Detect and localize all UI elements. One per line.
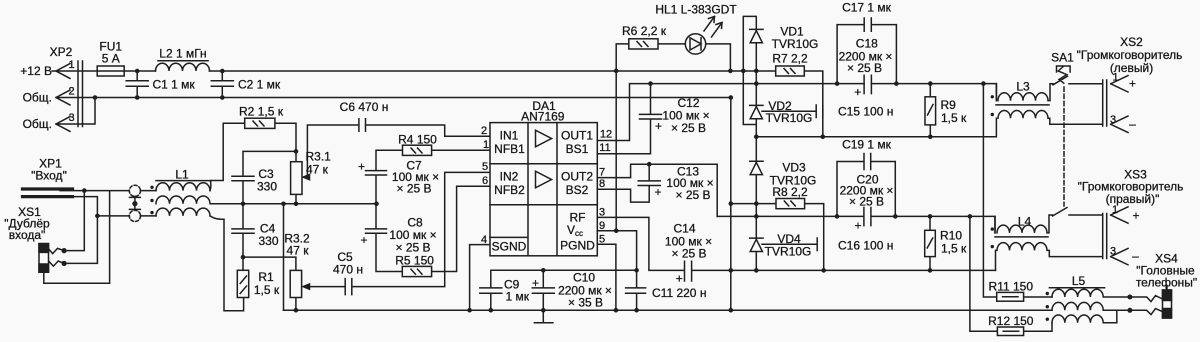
svg-text:1,5 к: 1,5 к <box>254 283 280 297</box>
svg-text:BS1: BS1 <box>566 142 589 156</box>
svg-text:1: 1 <box>68 59 74 71</box>
svg-text:× 25 В: × 25 В <box>675 188 710 202</box>
svg-text:1: 1 <box>483 139 489 151</box>
svg-text:IN1: IN1 <box>500 129 519 143</box>
svg-text:C17 1 мк: C17 1 мк <box>842 1 892 15</box>
svg-text:× 25 В: × 25 В <box>396 182 431 196</box>
svg-text:L5: L5 <box>1072 274 1086 288</box>
svg-text:R10: R10 <box>940 228 962 242</box>
svg-text:PGND: PGND <box>560 239 595 253</box>
svg-text:телефоны": телефоны" <box>1136 276 1197 290</box>
svg-text:+: + <box>1129 77 1136 91</box>
svg-text:TVR10G: TVR10G <box>766 111 813 125</box>
svg-text:7: 7 <box>599 166 605 178</box>
svg-text:4: 4 <box>481 234 487 246</box>
svg-text:C1 1 мк: C1 1 мк <box>153 78 196 92</box>
svg-text:× 25 В: × 25 В <box>849 194 884 208</box>
svg-text:C19 1 мк: C19 1 мк <box>842 137 892 151</box>
svg-text:+: + <box>1132 209 1139 223</box>
svg-text:–: – <box>1129 117 1136 131</box>
svg-text:5: 5 <box>599 233 605 245</box>
svg-text:2: 2 <box>481 125 487 137</box>
svg-text:6: 6 <box>482 175 488 187</box>
svg-text:+12 В: +12 В <box>20 64 52 78</box>
svg-text:1,5 к: 1,5 к <box>941 241 967 255</box>
svg-text:5 А: 5 А <box>102 52 120 66</box>
svg-text:1,5 к: 1,5 к <box>941 111 967 125</box>
svg-text:XP2: XP2 <box>50 45 73 59</box>
svg-text:C11 220 н: C11 220 н <box>652 286 706 300</box>
svg-text:R2 1,5 к: R2 1,5 к <box>239 105 284 119</box>
svg-text:IN2: IN2 <box>500 170 519 184</box>
svg-text:12: 12 <box>600 128 612 140</box>
svg-text:SGND: SGND <box>492 240 527 254</box>
svg-text:+: + <box>655 119 662 133</box>
svg-text:47 к: 47 к <box>306 163 329 177</box>
svg-text:+: + <box>854 219 861 233</box>
svg-text:R11 150: R11 150 <box>989 279 1034 293</box>
svg-text:+: + <box>532 276 539 290</box>
svg-text:C14: C14 <box>673 222 695 236</box>
svg-text:C16 100 н: C16 100 н <box>838 238 893 252</box>
svg-text:R1: R1 <box>258 270 274 284</box>
svg-text:330: 330 <box>257 180 277 194</box>
svg-text:8: 8 <box>599 178 605 190</box>
svg-text:L1: L1 <box>175 168 189 182</box>
svg-text:NFB1: NFB1 <box>494 142 525 156</box>
svg-text:L4: L4 <box>1018 215 1032 229</box>
svg-text:× 25 В: × 25 В <box>847 61 882 75</box>
svg-text:× 25 В: × 25 В <box>671 121 706 135</box>
svg-text:3: 3 <box>68 112 74 124</box>
svg-text:1: 1 <box>1112 72 1118 84</box>
svg-text:TVR10G: TVR10G <box>765 244 812 258</box>
svg-text:1: 1 <box>1112 204 1118 216</box>
svg-text:–: – <box>1132 249 1139 263</box>
svg-text:входа": входа" <box>9 228 46 242</box>
svg-text:47 к: 47 к <box>287 244 310 258</box>
svg-text:470 н: 470 н <box>333 263 363 277</box>
svg-text:Общ.: Общ. <box>23 117 52 131</box>
svg-text:3: 3 <box>1110 114 1116 126</box>
svg-text:3: 3 <box>1110 246 1116 258</box>
svg-text:Общ.: Общ. <box>23 91 52 105</box>
svg-text:C15 100 н: C15 100 н <box>838 104 893 118</box>
svg-text:XS2: XS2 <box>1120 35 1143 49</box>
svg-text:× 35 В: × 35 В <box>568 296 603 310</box>
svg-text:2: 2 <box>68 86 74 98</box>
svg-text:NFB2: NFB2 <box>494 183 525 197</box>
svg-text:TVR10G: TVR10G <box>772 37 819 51</box>
svg-text:AN7169: AN7169 <box>521 109 565 123</box>
svg-text:9: 9 <box>599 220 605 232</box>
svg-text:C10: C10 <box>573 271 595 285</box>
svg-text:× 25 В: × 25 В <box>395 241 430 255</box>
svg-text:R5 150: R5 150 <box>395 254 434 268</box>
svg-text:R7 2,2: R7 2,2 <box>772 52 808 66</box>
svg-text:BS2: BS2 <box>566 183 589 197</box>
svg-text:R6 2,2 к: R6 2,2 к <box>622 24 667 38</box>
svg-text:+: + <box>654 185 661 199</box>
svg-text:C6 470 н: C6 470 н <box>340 100 389 114</box>
svg-text:"Вход": "Вход" <box>31 169 67 183</box>
svg-text:R8 2,2: R8 2,2 <box>772 185 808 199</box>
svg-text:C2 1 мк: C2 1 мк <box>238 78 281 92</box>
svg-text:R3.1: R3.1 <box>306 150 332 164</box>
svg-text:3: 3 <box>599 206 605 218</box>
svg-text:SA1: SA1 <box>1051 51 1074 65</box>
svg-text:5: 5 <box>482 161 488 173</box>
svg-text:1 мк: 1 мк <box>506 290 530 304</box>
svg-text:R12 150: R12 150 <box>988 314 1034 328</box>
svg-text:+: + <box>358 160 365 174</box>
svg-text:L3: L3 <box>1016 80 1030 94</box>
svg-text:OUT1: OUT1 <box>561 129 593 143</box>
svg-text:HL1 L-383GDT: HL1 L-383GDT <box>655 3 737 17</box>
svg-text:× 25 В: × 25 В <box>671 247 706 261</box>
svg-text:+: + <box>854 85 861 99</box>
svg-text:R4 150: R4 150 <box>398 133 437 147</box>
svg-text:+: + <box>676 272 683 286</box>
svg-text:330: 330 <box>258 234 278 248</box>
svg-text:L2 1 мГн: L2 1 мГн <box>159 47 206 61</box>
svg-text:11: 11 <box>599 142 610 154</box>
svg-text:OUT2: OUT2 <box>561 170 593 184</box>
svg-text:+: + <box>360 233 367 247</box>
